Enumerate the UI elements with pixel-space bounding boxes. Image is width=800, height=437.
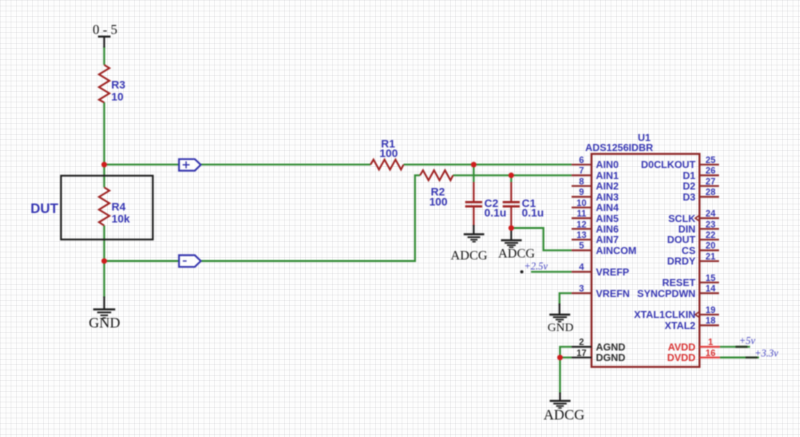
svg-text:AIN0: AIN0 xyxy=(596,160,619,171)
svg-text:27: 27 xyxy=(705,176,715,186)
svg-text:R3: R3 xyxy=(111,80,125,92)
svg-text:13: 13 xyxy=(576,230,586,240)
svg-text:ADCG: ADCG xyxy=(498,246,535,261)
svg-text:ADCG: ADCG xyxy=(451,248,488,263)
svg-text:DGND: DGND xyxy=(596,353,625,364)
svg-text:GND: GND xyxy=(89,316,120,332)
svg-text:0.1u: 0.1u xyxy=(484,208,506,220)
svg-text:18: 18 xyxy=(705,316,715,326)
svg-text:D3: D3 xyxy=(683,192,696,203)
svg-text:11: 11 xyxy=(577,209,587,219)
svg-text:AIN5: AIN5 xyxy=(596,214,619,225)
svg-text:0 - 5: 0 - 5 xyxy=(93,22,118,37)
svg-text:DVDD: DVDD xyxy=(667,353,695,364)
svg-text:ADCG: ADCG xyxy=(543,408,585,424)
svg-text:100: 100 xyxy=(429,196,447,208)
svg-text:R4: R4 xyxy=(112,202,127,214)
svg-text:15: 15 xyxy=(705,273,715,283)
svg-text:8: 8 xyxy=(579,176,584,186)
svg-text:AINCOM: AINCOM xyxy=(596,246,637,257)
svg-text:GND: GND xyxy=(548,320,574,334)
svg-text:24: 24 xyxy=(705,209,715,219)
svg-text:10: 10 xyxy=(111,92,123,104)
svg-text:16: 16 xyxy=(705,348,715,358)
svg-text:+3.3v: +3.3v xyxy=(755,348,779,359)
svg-text:DIN: DIN xyxy=(678,225,695,236)
svg-text:AIN6: AIN6 xyxy=(596,225,619,236)
svg-text:AIN4: AIN4 xyxy=(596,203,619,214)
svg-text:SCLK: SCLK xyxy=(668,214,696,225)
svg-text:3: 3 xyxy=(579,284,584,294)
svg-text:25: 25 xyxy=(705,155,715,165)
svg-text:19: 19 xyxy=(705,305,715,315)
svg-text:28: 28 xyxy=(705,187,715,197)
svg-text:0.1u: 0.1u xyxy=(522,208,544,220)
svg-text:2: 2 xyxy=(579,337,584,347)
svg-text:CS: CS xyxy=(682,246,696,257)
svg-text:12: 12 xyxy=(576,219,586,229)
svg-text:17: 17 xyxy=(576,348,586,358)
svg-text:AVDD: AVDD xyxy=(668,342,696,353)
svg-text:VREFN: VREFN xyxy=(596,289,630,300)
svg-text:1: 1 xyxy=(708,337,713,347)
svg-text:22: 22 xyxy=(705,230,715,240)
svg-text:21: 21 xyxy=(705,252,715,262)
svg-text:AIN7: AIN7 xyxy=(596,235,619,246)
svg-text:100: 100 xyxy=(380,148,398,160)
svg-text:XTAL1CLKIN: XTAL1CLKIN xyxy=(634,310,695,321)
svg-text:4: 4 xyxy=(579,262,584,272)
svg-text:23: 23 xyxy=(705,219,715,229)
svg-text:6: 6 xyxy=(579,155,584,165)
svg-text:+5v: +5v xyxy=(739,336,756,347)
svg-text:RESET: RESET xyxy=(662,278,695,289)
svg-text:D0CLKOUT: D0CLKOUT xyxy=(641,160,695,171)
svg-text:SYNCPDWN: SYNCPDWN xyxy=(637,289,695,300)
svg-text:D2: D2 xyxy=(683,182,696,193)
svg-text:26: 26 xyxy=(705,166,715,176)
svg-text:10k: 10k xyxy=(112,214,131,226)
svg-text:XTAL2: XTAL2 xyxy=(665,321,696,332)
svg-text:14: 14 xyxy=(705,284,715,294)
svg-text:DOUT: DOUT xyxy=(667,235,695,246)
svg-text:VREFP: VREFP xyxy=(596,267,630,278)
svg-text:AGND: AGND xyxy=(596,342,625,353)
svg-text:5: 5 xyxy=(579,241,584,251)
svg-text:7: 7 xyxy=(579,166,584,176)
svg-text:DUT: DUT xyxy=(31,201,59,216)
svg-text:10: 10 xyxy=(576,198,586,208)
svg-text:+2.5v: +2.5v xyxy=(524,262,548,273)
svg-text:9: 9 xyxy=(579,187,584,197)
svg-text:AIN2: AIN2 xyxy=(596,182,619,193)
svg-text:AIN3: AIN3 xyxy=(596,192,619,203)
svg-text:AIN1: AIN1 xyxy=(596,171,619,182)
svg-text:D1: D1 xyxy=(683,171,696,182)
svg-text:20: 20 xyxy=(705,241,715,251)
svg-text:DRDY: DRDY xyxy=(667,257,696,268)
svg-text:ADS1256IDBR: ADS1256IDBR xyxy=(585,143,654,154)
